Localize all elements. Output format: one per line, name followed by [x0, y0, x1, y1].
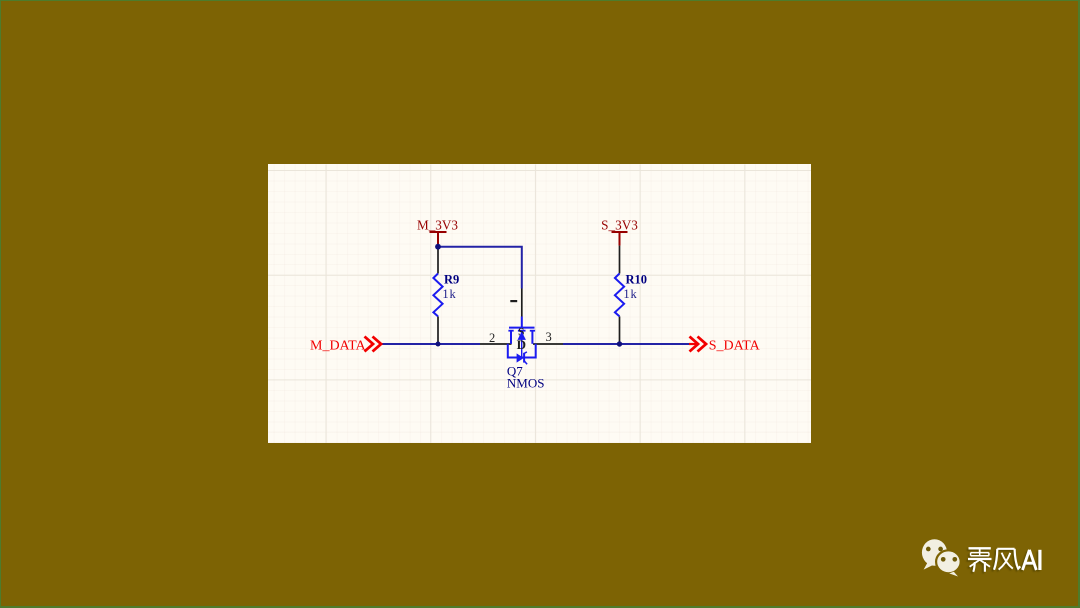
source stub [510, 331, 512, 344]
body diode loop [508, 344, 536, 358]
svg-text:M_3V3: M_3V3 [417, 218, 458, 233]
resistor R10 pins [619, 246, 621, 343]
power symbol S_3V3 [612, 232, 628, 246]
resistor R10 body [615, 274, 624, 317]
transistor Q7 pin 3 lead [533, 343, 563, 345]
junction node at R9 bottom [436, 342, 441, 347]
transistor Q7 pin 2 lead [480, 343, 512, 345]
wire M_DATA to pin2 [382, 343, 481, 345]
watermark text shadow [966, 550, 1038, 574]
pin number 1 (rotated) [510, 300, 517, 302]
svg-text:1k: 1k [442, 287, 456, 301]
gate vertical lead into symbol [521, 317, 523, 328]
svg-text:S_DATA: S_DATA [709, 339, 761, 354]
watermark text 霁风AI [968, 548, 1040, 572]
small chat bubble [936, 550, 961, 576]
resistor R9 pins [437, 249, 439, 343]
resistor R9 body [433, 274, 442, 317]
svg-text:S_3V3: S_3V3 [601, 218, 638, 233]
diode anode triangle [517, 353, 524, 362]
junction node at R9 top [435, 244, 441, 250]
svg-text:3: 3 [546, 330, 552, 344]
svg-text:M_DATA: M_DATA [310, 339, 367, 354]
svg-text:R10: R10 [626, 273, 648, 287]
gate bar [509, 327, 535, 329]
wire pin3 to S_DATA [563, 343, 689, 345]
transistor Q7 pin 1 (gate) lead [521, 289, 523, 317]
drain stub [531, 331, 533, 344]
transistor Q7 body [508, 317, 536, 365]
svg-text:2: 2 [489, 331, 495, 345]
diode cathode hooks [524, 352, 527, 364]
WeChat logo + 霁风AI watermark [915, 535, 1055, 585]
junction node at R10 bottom [617, 341, 622, 346]
svg-text:D: D [517, 337, 526, 352]
diode cathode bar [523, 353, 525, 363]
svg-text:NMOS: NMOS [507, 375, 545, 390]
svg-text:R9: R9 [444, 273, 459, 287]
substrate arrow [518, 331, 526, 340]
wire top rail from R9 node to gate [438, 247, 522, 289]
bulk line [521, 331, 523, 358]
power symbol M_3V3 [430, 232, 447, 244]
big chat bubble [922, 539, 947, 569]
port S_DATA [689, 343, 699, 345]
svg-text:1k: 1k [623, 287, 637, 301]
channel caps [508, 330, 513, 332]
